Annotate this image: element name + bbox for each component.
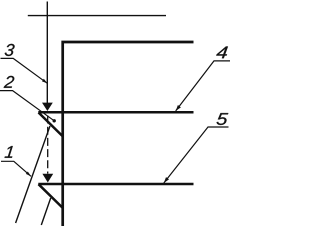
arrow of leader 5 [164,177,169,183]
tuyere 1 underside diagonal [39,113,63,137]
dashed trajectory line [47,116,49,174]
filled arrowhead on lance axis [42,103,53,111]
lance item 1 long diagonal [16,126,50,223]
label 5 [217,113,229,125]
label 1 [5,146,13,158]
tuyere 2 underside diagonal [39,184,63,207]
thin horizontal axis line [28,15,166,17]
arrow of leader 3 [42,79,47,84]
arrow of leader 4 [176,105,181,111]
dot at end of leader 2 [53,119,56,122]
filled arrowhead on dashed line [42,174,53,183]
lance item 2 short diagonal [41,198,50,225]
label 3 [5,44,15,56]
tuyere row line 1 [38,111,193,114]
label 4 [216,47,228,59]
tuyere row line 2 [38,183,193,186]
leader 5 [164,127,229,183]
arrow of leader 1 [26,172,31,177]
furnace wall with top corner [63,42,194,226]
leader 2 [0,91,54,121]
thin vertical lance axis line [46,2,48,104]
label 2 [4,76,15,88]
leader 1 [1,161,31,176]
leader 4 [176,61,230,111]
leader 3 [1,58,48,83]
